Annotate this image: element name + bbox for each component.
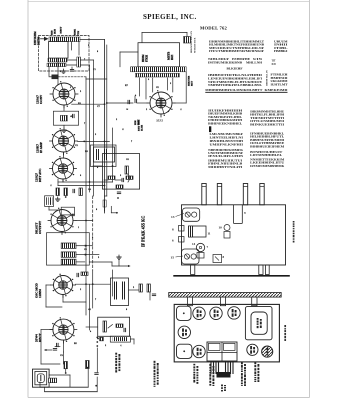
svg-text:.1: .1	[50, 185, 52, 187]
svg-text:14: 14	[192, 242, 196, 246]
bus wire 3 dashed part	[92, 196, 94, 270]
svg-text:2: 2	[80, 289, 81, 291]
left edge part 6	[179, 237, 185, 243]
standoff post 1	[187, 297, 192, 306]
chassis bottom box	[174, 304, 279, 362]
gang dashed link	[59, 76, 87, 78]
chassis top view caption	[293, 221, 295, 223]
antenna arrow	[44, 37, 49, 41]
wire T1 to bus	[120, 51, 138, 53]
svg-text:IKH: IKH	[54, 29, 57, 34]
wire V4 area	[62, 179, 64, 182]
trimmer cap	[70, 69, 73, 71]
svg-text:11: 11	[208, 232, 211, 236]
divider box 9	[233, 205, 235, 224]
wire V7 left	[41, 329, 53, 331]
svg-text:ITH: ITH	[77, 31, 80, 36]
svg-text:RECT: RECT	[38, 333, 42, 342]
cap near bus	[95, 372, 98, 374]
label stub 3	[241, 362, 243, 364]
comps right of IF can	[139, 284, 142, 292]
wire	[48, 206, 50, 210]
wire row out	[89, 261, 112, 263]
part 10 small socket	[224, 225, 230, 231]
svg-text:10: 10	[219, 226, 223, 230]
wire	[63, 152, 65, 158]
bottom bus wires	[40, 386, 88, 388]
wire V2 left to bus	[107, 102, 133, 104]
wire bottom V6	[62, 295, 64, 303]
cluster right of bus y165-200	[125, 166, 128, 174]
wire 3rd IF to V5	[49, 209, 60, 211]
svg-text:IMTHUMIKIIKBNB: IMTHUMIKIIKBNB	[208, 61, 243, 65]
part 8b box	[213, 255, 222, 263]
resistor right of loop	[77, 57, 81, 67]
tuning capacitor section	[52, 75, 59, 80]
tube shield post 1	[202, 184, 206, 205]
svg-text:13: 13	[171, 215, 175, 219]
bus wire 4 upper	[89, 65, 91, 192]
wire V3 right	[78, 140, 110, 142]
components inside lower box	[108, 176, 115, 179]
svg-text:MODEL 762: MODEL 762	[200, 26, 227, 31]
tube V7 rectifier 35W4	[50, 317, 77, 343]
wires below T1 comb	[138, 78, 140, 96]
svg-text:UMIIFNLKNFHII: UMIIFNLKNFHII	[210, 142, 244, 146]
bus wire 5	[85, 77, 87, 315]
tube socket D	[228, 307, 240, 319]
resistor above T1	[184, 37, 191, 44]
svg-text:12BE6: 12BE6	[38, 289, 42, 298]
wire right of T1 down	[185, 72, 187, 103]
antenna coil L1	[49, 37, 80, 42]
wire V4 bottom rows	[58, 181, 113, 183]
label stub 4	[254, 362, 256, 364]
potentiometer	[103, 321, 106, 332]
wire V6 right to IF can	[76, 283, 111, 285]
V2 left electrolytic	[134, 99, 136, 102]
wire V5 right	[76, 220, 93, 222]
bracket mark	[209, 126, 211, 132]
left edge part 8	[179, 226, 185, 232]
3rd IF small box	[45, 196, 54, 207]
svg-text:HIK: HIK	[135, 120, 137, 125]
wire plug to bus	[49, 374, 70, 376]
tube V1 converter 12SA7	[50, 81, 78, 108]
tube shield post 2	[217, 184, 221, 205]
tube V5 output 50L6	[48, 208, 76, 235]
line cord comps row	[45, 349, 47, 351]
ground under coil	[63, 69, 65, 71]
T1 winding comb 2	[135, 73, 179, 77]
bus end components	[103, 200, 106, 207]
svg-text:MBIT: MBIT	[60, 26, 63, 33]
oscillator coil L2	[48, 58, 67, 62]
wire left drop	[48, 67, 50, 76]
svg-text:MIT: MIT	[191, 81, 194, 86]
svg-text:BIHBHUEIEIFHEM: BIHBHUEIEIFHEM	[250, 144, 285, 148]
cap near bus	[127, 100, 129, 103]
tube V6 converter socket 12BE6	[51, 274, 76, 298]
svg-text:DET AVC: DET AVC	[38, 168, 42, 182]
svg-text:BHTM: BHTM	[37, 36, 40, 45]
1st IF box	[94, 147, 115, 162]
junction dots column	[96, 337, 98, 339]
svg-text:BLKIEHF: BLKIEHF	[227, 66, 243, 70]
bus wire AVC upper	[112, 128, 114, 182]
socket assembly 14	[196, 243, 204, 251]
lower cluster	[61, 207, 74, 215]
comps above V6	[76, 273, 78, 276]
svg-text:R2: R2	[72, 215, 75, 217]
svg-text:IUHTLMT: IUHTLMT	[271, 82, 289, 86]
filament wire row	[86, 78, 107, 80]
bus wire B+	[104, 40, 106, 214]
svg-text:.1: .1	[180, 109, 182, 111]
tube shield post 3	[243, 184, 247, 205]
tube V4 detector 12SQ7	[50, 156, 77, 182]
tube shield post 4	[260, 184, 264, 205]
svg-text:ITFUTMHIHIMENIFMFIINKIF: ITFUTMHIHIMENIFMFIINKIF	[209, 49, 264, 53]
bottom view caption	[284, 325, 286, 327]
tube V3 IF amplifier 12SK7	[50, 128, 78, 155]
tube socket G	[193, 345, 205, 357]
note text vertical 2	[154, 361, 156, 363]
gang trimmer comb	[210, 361, 212, 374]
bus wire 2	[106, 45, 108, 196]
tube socket B	[193, 307, 205, 319]
chassis top box	[182, 205, 286, 265]
svg-text:SPIEGEL, INC.: SPIEGEL, INC.	[143, 13, 197, 21]
wire OT to right	[130, 338, 134, 340]
oscillator box	[53, 111, 78, 125]
svg-text:MIIIIHBTTNILFH: MIIIIHBTTNILFH	[208, 165, 243, 169]
wire T1 top loop	[141, 33, 143, 43]
2nd box overlap	[102, 154, 139, 190]
page edge top	[28, 1, 310, 3]
switch label box	[49, 378, 57, 383]
tube socket C	[210, 307, 222, 319]
wire	[67, 59, 94, 61]
table surface line	[173, 275, 289, 277]
candohm enclosure	[47, 233, 90, 265]
junction comps left of OT	[97, 338, 99, 340]
svg-text:1: 1	[78, 227, 79, 229]
coil drop wires	[71, 42, 73, 50]
small note below gang	[221, 385, 223, 387]
power plug P1	[33, 369, 50, 387]
resistor mid bottom	[64, 362, 67, 369]
wire	[66, 64, 90, 66]
det cluster	[56, 188, 59, 196]
volume control enclosure	[98, 317, 130, 336]
filter capacitor hatched	[262, 346, 273, 357]
standoff post 2	[220, 297, 225, 306]
wire V7 bottom	[62, 340, 64, 352]
svg-text:ILTH: ILTH	[141, 125, 144, 131]
svg-text:MTKIH BUE: MTKIH BUE	[194, 37, 197, 53]
loop frame	[49, 42, 69, 59]
candohm resistor sections	[61, 243, 76, 248]
svg-text:C2: C2	[75, 145, 78, 147]
arrowheads on taps	[85, 245, 88, 247]
wire V1 right row	[72, 103, 105, 105]
chassis feet	[191, 265, 195, 275]
left wire of V6	[46, 284, 51, 286]
page edge right	[309, 0, 311, 398]
svg-text:IUM: IUM	[272, 62, 276, 66]
svg-text:HMBKI: HMBKI	[274, 49, 288, 53]
IF can 15	[182, 249, 199, 264]
wire candohm taps to bus	[85, 245, 93, 247]
oscillator coil L2b	[47, 63, 66, 66]
svg-text:LIITMNHHIHLEL: LIITMNHHIHLEL	[250, 153, 283, 157]
IF can F	[177, 344, 192, 358]
switch wire	[41, 363, 60, 365]
svg-text:35Z5: 35Z5	[156, 119, 163, 123]
label stub 2	[209, 364, 211, 366]
IF can 13	[182, 208, 199, 221]
svg-text:BMT: BMT	[138, 119, 140, 125]
1st IF outer box	[91, 145, 117, 167]
IF transformer can	[111, 278, 129, 306]
T1 winding comb 1	[131, 67, 187, 72]
wire	[86, 326, 98, 328]
loop antenna dashed enclosure	[39, 36, 90, 72]
svg-text:IF AMP: IF AMP	[39, 142, 43, 153]
svg-text:2: 2	[146, 109, 147, 111]
wire	[57, 37, 59, 42]
svg-text:NMHMTIIHKFIELEBBIKLBNL: NMHMTIIHKFIELEBBIKLBNL	[208, 83, 263, 87]
resistor near bus	[86, 361, 90, 369]
wire from coil right to bus	[80, 39, 105, 41]
mounting board hatched bar	[169, 293, 282, 298]
osc gnd	[63, 125, 65, 128]
output transformer box	[110, 336, 130, 342]
speaker frame	[245, 307, 272, 340]
L wire with dot	[110, 206, 112, 213]
svg-text:KMEKEIMII: KMEKEIMII	[265, 88, 289, 92]
svg-text:2: 2	[105, 345, 106, 347]
svg-text:MHIHIHMIHFUILMNIKMLBHTT: MHIHIHMIHFUILMNIKMLBHTT	[205, 88, 263, 92]
svg-text:IF PEAK 455 KC: IF PEAK 455 KC	[140, 216, 145, 247]
note text vertical 1	[115, 353, 117, 355]
tube socket E	[178, 326, 190, 338]
svg-text:2: 2	[116, 119, 117, 121]
svg-text:CONV: CONV	[39, 94, 43, 104]
IF can A	[177, 306, 192, 320]
svg-text:BIHINEEKNIHHEL: BIHINEEKNIHHEL	[208, 121, 243, 125]
svg-text:OUTPUT: OUTPUT	[38, 221, 42, 234]
wire V1 bottom	[63, 105, 65, 111]
tube V2 rectifier 35Z5	[147, 90, 175, 117]
tuning gang	[207, 342, 237, 361]
taps	[76, 245, 85, 247]
power transformer T1 box	[138, 43, 180, 67]
svg-text:IHBMTKLIN: IHBMTKLIN	[265, 70, 268, 86]
bus wire 3 solid part	[93, 60, 95, 196]
svg-text:C1: C1	[93, 69, 96, 71]
svg-text:MHLLNH: MHLLNH	[246, 61, 262, 65]
electrolytic capacitor 11	[189, 226, 207, 237]
svg-text:15: 15	[171, 256, 175, 260]
svg-text:2: 2	[70, 87, 71, 89]
svg-text:IFEMINMEMBHHMK: IFEMINMEMBHHMK	[250, 164, 284, 168]
dial lamp branch	[55, 346, 60, 348]
label stub below left	[193, 364, 195, 366]
svg-text:ITKH: ITKH	[145, 55, 148, 62]
wire V7 to plug row	[62, 352, 64, 364]
page edge bottom	[28, 397, 310, 399]
svg-text:.02: .02	[88, 309, 91, 311]
standoff post 3	[252, 297, 257, 306]
page edge left	[27, 0, 29, 398]
wire V1 top to coil	[57, 58, 59, 84]
bus wire AVC lower	[112, 270, 114, 296]
bus wire 4 lower	[89, 284, 91, 330]
tube socket H	[247, 344, 258, 355]
svg-text:BIINKUEIHKTTII: BIINKUEIHKTTII	[250, 122, 285, 126]
svg-text:IKH: IKH	[171, 55, 174, 60]
